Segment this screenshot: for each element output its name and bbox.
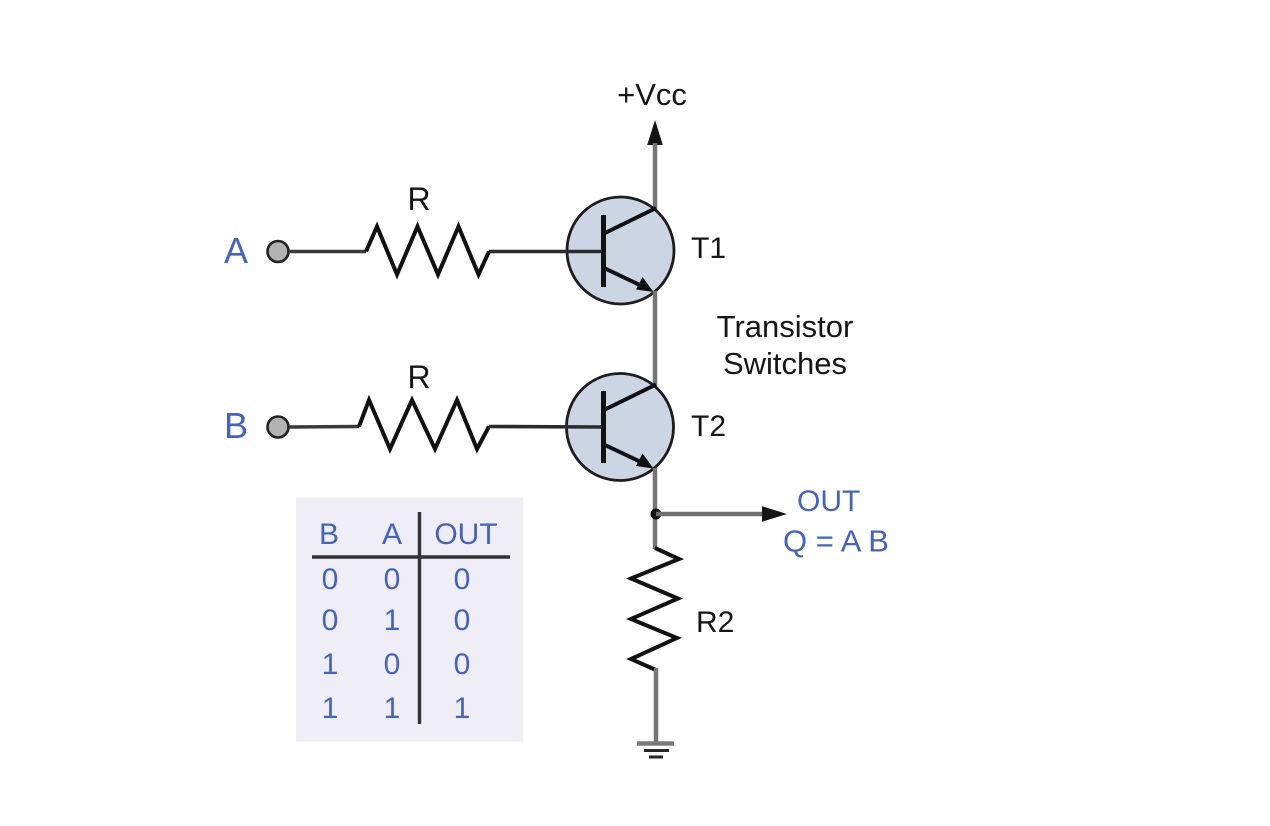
svg-text:R2: R2 bbox=[696, 606, 734, 639]
truth table row 1 bbox=[322, 563, 471, 596]
resistor R (input B) bbox=[359, 400, 489, 449]
truth table row 2 bbox=[322, 604, 471, 637]
truth table panel bbox=[296, 498, 523, 742]
svg-text:1: 1 bbox=[384, 604, 401, 637]
svg-text:0: 0 bbox=[454, 604, 471, 637]
truth table row 3 bbox=[322, 648, 471, 681]
svg-text:T1: T1 bbox=[691, 232, 726, 265]
svg-text:OUT: OUT bbox=[434, 518, 497, 551]
wire resistor R to T1 base bbox=[489, 250, 602, 254]
svg-text:A: A bbox=[224, 230, 248, 271]
svg-text:1: 1 bbox=[322, 648, 339, 681]
OUT arrowhead bbox=[762, 506, 787, 522]
svg-text:T2: T2 bbox=[691, 410, 726, 443]
svg-text:B: B bbox=[319, 518, 339, 551]
svg-text:R: R bbox=[407, 181, 430, 217]
wire T2 emitter to output junction bbox=[653, 468, 658, 549]
resistor R (input A) bbox=[366, 227, 489, 275]
transistor T2 body bbox=[567, 374, 674, 481]
Vcc supply arrowhead bbox=[647, 120, 663, 145]
svg-text:0: 0 bbox=[454, 648, 471, 681]
svg-text:0: 0 bbox=[384, 648, 401, 681]
transistor T2 emitter line bbox=[604, 445, 644, 464]
resistor R2 bbox=[631, 548, 679, 670]
svg-text:Switches: Switches bbox=[723, 346, 847, 381]
transistor T1 emitter arrowhead bbox=[636, 277, 654, 292]
transistor T1 collector line bbox=[604, 208, 656, 234]
svg-text:0: 0 bbox=[454, 563, 471, 596]
junction node (output) bbox=[651, 509, 662, 520]
svg-text:1: 1 bbox=[322, 692, 339, 725]
wire junction to OUT arrow bbox=[656, 512, 765, 517]
wire R2 to ground bbox=[654, 668, 659, 743]
transistor T1 body bbox=[567, 197, 674, 304]
transistor T1 emitter line bbox=[604, 268, 644, 287]
svg-text:Transistor: Transistor bbox=[717, 309, 854, 344]
svg-text:1: 1 bbox=[454, 692, 471, 725]
truth table header rule bbox=[312, 555, 510, 558]
svg-text:OUT: OUT bbox=[797, 485, 860, 518]
svg-text:0: 0 bbox=[322, 604, 339, 637]
svg-text:0: 0 bbox=[322, 563, 339, 596]
wire A terminal to resistor R bbox=[289, 250, 366, 254]
transistor T2 emitter arrowhead bbox=[636, 454, 654, 469]
wire T1 emitter to T2 collector bbox=[653, 291, 658, 387]
svg-text:R: R bbox=[407, 359, 430, 395]
terminal A bbox=[268, 241, 289, 262]
transistor T2 collector line bbox=[604, 385, 656, 411]
svg-text:+Vcc: +Vcc bbox=[617, 77, 687, 112]
truth table row 4 bbox=[322, 692, 471, 725]
transistor T1 base bar bbox=[601, 215, 606, 287]
wire resistor R to T2 base bbox=[489, 425, 602, 429]
svg-text:0: 0 bbox=[384, 563, 401, 596]
truth table column rule bbox=[418, 512, 421, 724]
svg-text:1: 1 bbox=[384, 692, 401, 725]
label Transistor Switches bbox=[717, 309, 854, 381]
svg-text:B: B bbox=[224, 405, 248, 446]
terminal B bbox=[268, 417, 289, 438]
ground bbox=[637, 744, 674, 758]
svg-text:A: A bbox=[382, 518, 402, 551]
wire B terminal to resistor R bbox=[289, 425, 359, 429]
svg-text:Q = A B: Q = A B bbox=[783, 524, 889, 559]
transistor T2 base bar bbox=[601, 391, 606, 463]
wire Vcc to T1 collector bbox=[653, 143, 658, 210]
